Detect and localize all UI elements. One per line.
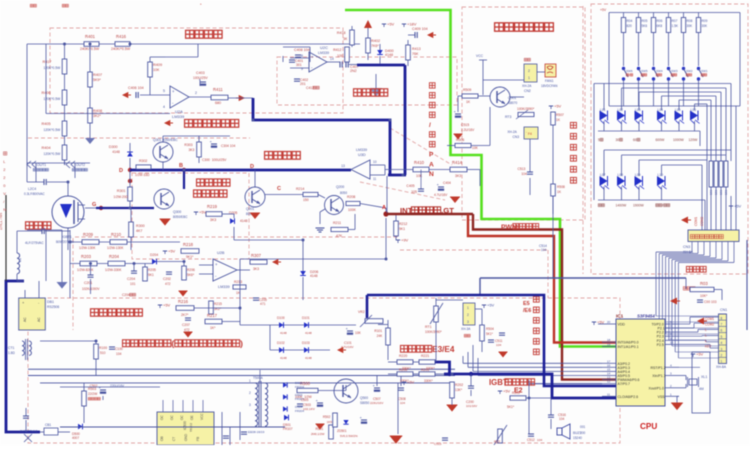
svg-text:C207: C207	[182, 323, 190, 327]
svg-text:1K: 1K	[466, 100, 471, 104]
svg-text:D101: D101	[302, 316, 310, 320]
svg-text:R03: R03	[700, 281, 708, 286]
svg-text:100K/3990*: 100K/3990*	[425, 330, 442, 334]
svg-text:R414: R414	[452, 160, 463, 165]
svg-text:C201: C201	[84, 281, 92, 285]
svg-text:330K*: 330K*	[424, 379, 433, 383]
svg-text:60: 60	[633, 138, 637, 142]
svg-text:+9V: +9V	[401, 238, 409, 243]
svg-text:13K*: 13K*	[455, 388, 463, 392]
svg-text:D300: D300	[109, 145, 118, 149]
svg-text:L01: L01	[600, 108, 606, 112]
svg-text:V: V	[3, 191, 6, 196]
svg-text:L: L	[705, 334, 707, 338]
svg-text:3K: 3K	[343, 37, 348, 41]
svg-text:4148: 4148	[112, 150, 120, 154]
svg-text:Q301 8050/EBC: Q301 8050/EBC	[153, 138, 178, 142]
svg-text:CN1: CN1	[720, 308, 727, 312]
svg-text:R219: R219	[207, 204, 218, 209]
svg-text:11: 11	[607, 392, 610, 396]
svg-text:C300 100U/25V: C300 100U/25V	[202, 158, 227, 162]
svg-text:CLO/A8/P2.6: CLO/A8/P2.6	[618, 395, 639, 399]
svg-text:R215: R215	[214, 302, 222, 306]
svg-text:R302: R302	[139, 159, 147, 163]
svg-text:R401: R401	[85, 34, 96, 39]
svg-text:R200: R200	[399, 368, 407, 372]
svg-text:L: L	[705, 328, 707, 332]
svg-text:RST/P1.2: RST/P1.2	[650, 366, 665, 370]
svg-text:XH-8A: XH-8A	[716, 365, 727, 369]
svg-text:100K/3990*: 100K/3990*	[517, 107, 535, 111]
svg-text:8: 8	[301, 54, 303, 58]
svg-text:3K3: 3K3	[253, 267, 259, 271]
svg-text:R203: R203	[81, 254, 92, 259]
svg-text:+5V: +5V	[168, 249, 176, 254]
svg-text:): )	[240, 339, 243, 349]
svg-text:+5V: +5V	[199, 210, 207, 215]
svg-text:3K2*: 3K2*	[93, 114, 101, 118]
svg-text:R417: R417	[42, 60, 51, 64]
svg-text:3: 3	[721, 347, 723, 351]
svg-text:RS2506: RS2506	[47, 305, 59, 309]
svg-text:R409: R409	[153, 63, 162, 67]
svg-text:AC: AC	[37, 317, 41, 322]
svg-text:R410: R410	[414, 160, 425, 165]
svg-text:510: 510	[100, 351, 106, 355]
svg-text:R508: R508	[557, 185, 565, 189]
svg-text:CN3: CN3	[683, 245, 690, 249]
svg-text:R408: R408	[93, 109, 102, 113]
svg-text:LM339: LM339	[356, 148, 367, 152]
svg-text:R507: R507	[556, 113, 564, 117]
svg-text:R402: R402	[371, 39, 380, 43]
svg-text:100U/25V: 100U/25V	[193, 76, 208, 80]
svg-text:+: +	[215, 262, 218, 267]
svg-text:20: 20	[607, 320, 611, 324]
svg-text:OB: OB	[160, 436, 164, 441]
svg-text:D: D	[250, 164, 254, 170]
svg-text:820: 820	[627, 24, 633, 28]
svg-text:A7/P0.7: A7/P0.7	[618, 382, 631, 386]
svg-text:4148: 4148	[385, 53, 393, 57]
svg-text:+5V: +5V	[554, 104, 562, 109]
svg-text:R08: R08	[687, 19, 693, 23]
svg-text:120K*0.5W: 120K*0.5W	[44, 128, 62, 132]
svg-text:VR2: VR2	[358, 310, 365, 314]
svg-text:L2C4: L2C4	[28, 187, 36, 191]
svg-text:CB1: CB1	[45, 423, 51, 427]
svg-text:5K6: 5K6	[642, 24, 648, 28]
svg-text:104: 104	[521, 172, 527, 176]
svg-text:Q201: Q201	[246, 207, 254, 211]
svg-text:R506: R506	[456, 138, 464, 142]
svg-text:10K*: 10K*	[700, 294, 708, 298]
svg-text:100: 100	[337, 54, 343, 58]
svg-text:104: 104	[541, 248, 547, 252]
svg-text:R407: R407	[93, 73, 102, 77]
svg-text:XH-3A: XH-3A	[461, 327, 471, 331]
svg-text:2M0,1/2W: 2M0,1/2W	[311, 432, 325, 436]
svg-text:R220: R220	[399, 354, 407, 358]
svg-text:5: 5	[598, 138, 600, 142]
svg-text:R404: R404	[41, 146, 50, 150]
svg-text:R405: R405	[41, 122, 50, 126]
svg-text:R210: R210	[111, 232, 122, 237]
svg-text:18VDCFAN: 18VDCFAN	[541, 84, 558, 88]
svg-text:-: -	[526, 130, 527, 134]
svg-text:472: 472	[165, 282, 171, 286]
svg-text:2: 2	[467, 313, 469, 317]
svg-text:R208: R208	[347, 195, 355, 199]
svg-text:/E6: /E6	[523, 308, 531, 314]
svg-text:R300: R300	[136, 224, 145, 228]
svg-text:2UF/275VAC: 2UF/275VAC	[20, 429, 38, 433]
svg-text:R216: R216	[178, 299, 189, 304]
svg-text:5K1*: 5K1*	[486, 332, 494, 336]
svg-text:R218: R218	[183, 242, 194, 247]
svg-text:1/2W-130K: 1/2W-130K	[79, 246, 96, 250]
svg-text:R209: R209	[83, 232, 94, 237]
svg-text:R301: R301	[117, 189, 126, 193]
svg-text:R502: R502	[323, 415, 331, 419]
svg-text:R201: R201	[421, 368, 429, 372]
svg-text:1K*: 1K*	[210, 326, 216, 330]
svg-text:10K: 10K	[153, 68, 160, 72]
svg-text:IC500: IC500	[183, 421, 187, 430]
svg-text:C406 104: C406 104	[128, 86, 144, 90]
svg-text:6K8: 6K8	[657, 24, 663, 28]
svg-text:3K3: 3K3	[455, 174, 461, 178]
svg-text:R418: R418	[337, 31, 346, 35]
svg-text:150: 150	[303, 198, 309, 202]
svg-text:1.8Ω: 1.8Ω	[8, 351, 15, 355]
svg-text:104: 104	[116, 352, 122, 356]
svg-text:5K9*: 5K9*	[93, 78, 101, 82]
svg-text:L02: L02	[618, 108, 624, 112]
svg-text:220U/16V: 220U/16V	[370, 401, 383, 405]
svg-text:10: 10	[670, 340, 674, 344]
svg-text:7K6*: 7K6*	[371, 44, 379, 48]
svg-text:D: D	[119, 168, 123, 174]
svg-text:9K1: 9K1	[148, 273, 154, 277]
svg-text:R213: R213	[234, 280, 242, 284]
svg-text:D204: D204	[150, 253, 158, 257]
svg-text:24K: 24K	[377, 334, 384, 338]
svg-text:7: 7	[721, 323, 723, 327]
svg-text:8050/EBC: 8050/EBC	[173, 215, 188, 219]
svg-text:P2.5: P2.5	[657, 343, 664, 347]
svg-text:104: 104	[559, 417, 565, 421]
svg-text:9K1: 9K1	[399, 227, 405, 231]
svg-text:1: 1	[721, 360, 723, 364]
svg-text:C304 104: C304 104	[221, 144, 235, 148]
svg-text:R411: R411	[213, 87, 223, 92]
svg-text:IC1: IC1	[616, 314, 624, 319]
svg-text:4LF/275VAC: 4LF/275VAC	[25, 241, 44, 245]
svg-text:+5V: +5V	[503, 389, 511, 394]
svg-text:472: 472	[184, 328, 190, 332]
svg-text:4148: 4148	[310, 274, 318, 278]
svg-text:N: N	[429, 171, 434, 178]
svg-text:LM339: LM339	[218, 285, 230, 289]
svg-text:D100: D100	[277, 316, 285, 320]
svg-text:R221: R221	[421, 354, 429, 358]
svg-text:100K: 100K	[348, 208, 357, 212]
svg-text:120W: 120W	[689, 138, 699, 142]
svg-text:201: 201	[300, 82, 306, 86]
svg-text:D103: D103	[302, 341, 310, 345]
svg-text:T500A: T500A	[253, 376, 264, 380]
svg-text:COM2: COM2	[705, 323, 714, 327]
svg-text:FB: FB	[196, 437, 200, 441]
svg-text:SW2: SW2	[686, 69, 693, 73]
svg-text:C202: C202	[163, 277, 171, 281]
svg-text:E5: E5	[523, 301, 530, 307]
svg-text:ZD501: ZD501	[337, 429, 347, 433]
svg-text:8: 8	[721, 316, 723, 320]
svg-text:104: 104	[400, 401, 405, 405]
svg-text:GND: GND	[184, 433, 188, 441]
svg-text:SW3: SW3	[671, 69, 678, 73]
svg-text:10: 10	[373, 160, 377, 164]
svg-text:R07: R07	[672, 19, 678, 23]
svg-text:C409 104: C409 104	[412, 27, 428, 31]
svg-text:1/2W-330K: 1/2W-330K	[105, 268, 122, 272]
svg-text:R413: R413	[412, 47, 421, 51]
svg-text:Xin/P1.1: Xin/P1.1	[652, 374, 665, 378]
svg-text:30K: 30K	[687, 24, 694, 28]
svg-text:C: C	[277, 186, 281, 192]
svg-text:CPU: CPU	[640, 422, 657, 431]
svg-text:A: A	[382, 205, 386, 211]
svg-text:IGBT1: IGBT1	[62, 235, 72, 239]
svg-text:4K7: 4K7	[136, 229, 142, 233]
svg-text:VDD: VDD	[618, 323, 626, 327]
svg-text:C204: C204	[127, 277, 135, 281]
svg-text:L: L	[705, 339, 707, 343]
svg-text:R101: R101	[374, 329, 382, 333]
svg-text:104: 104	[537, 438, 542, 442]
svg-text:FAN1: FAN1	[545, 79, 554, 83]
svg-text:/: /	[429, 122, 431, 129]
svg-text:19: 19	[607, 343, 611, 347]
svg-text:C408 104: C408 104	[294, 48, 310, 52]
svg-text:C515: C515	[461, 123, 469, 127]
svg-text:0.3LF/800VAC: 0.3LF/800VAC	[24, 192, 45, 196]
svg-text:FR204: FR204	[295, 409, 304, 413]
svg-text:COM2: COM2	[700, 217, 704, 226]
svg-text:9K1*: 9K1*	[186, 255, 194, 259]
svg-text:1.5K: 1.5K	[672, 24, 679, 28]
svg-text:2.2U/16V: 2.2U/16V	[461, 128, 475, 132]
svg-text:5: 5	[721, 335, 723, 339]
svg-text:120K*0.5W: 120K*0.5W	[44, 152, 62, 156]
svg-text:R303: R303	[184, 143, 192, 147]
svg-text:OUT1: OUT1	[37, 163, 46, 167]
svg-text:CN3: CN3	[512, 135, 519, 139]
svg-text:13: 13	[341, 164, 345, 168]
svg-text:CT1: CT1	[8, 346, 15, 350]
svg-text:C513: C513	[517, 167, 525, 171]
svg-text:12: 12	[607, 380, 611, 384]
svg-text:1: 1	[249, 379, 251, 383]
svg-text:R211: R211	[333, 221, 341, 225]
svg-text:COM1: COM1	[705, 317, 714, 321]
svg-text:1/2W-130K: 1/2W-130K	[107, 246, 124, 250]
svg-text:OE: OE	[190, 415, 194, 420]
svg-text:200: 200	[580, 431, 586, 435]
svg-text:1/2W-33Ω: 1/2W-33Ω	[135, 173, 150, 177]
svg-text:C405: C405	[406, 184, 414, 188]
svg-text:001: 001	[580, 425, 586, 429]
svg-text:VSS: VSS	[658, 395, 666, 399]
svg-text:47K: 47K	[336, 234, 343, 238]
svg-text:102K/1000V: 102K/1000V	[82, 287, 100, 291]
svg-text:S3F9454: S3F9454	[637, 314, 655, 319]
svg-text:R05: R05	[642, 19, 648, 23]
svg-text:L06: L06	[691, 108, 697, 112]
svg-text:CN2: CN2	[524, 89, 531, 93]
svg-text:3K3: 3K3	[210, 218, 216, 222]
svg-text:4: 4	[163, 105, 165, 109]
svg-text:C100: C100	[115, 347, 123, 351]
svg-text:L04: L04	[658, 108, 664, 112]
svg-text:R205: R205	[148, 268, 156, 272]
svg-text:C403: C403	[196, 71, 205, 75]
svg-text:4148: 4148	[305, 331, 312, 335]
svg-text:14: 14	[330, 57, 334, 61]
svg-text:Q500: Q500	[360, 396, 368, 400]
svg-text:2: 2	[249, 391, 251, 395]
svg-text:R509: R509	[463, 88, 471, 92]
svg-text:4: 4	[721, 341, 723, 345]
svg-text:R217: R217	[207, 313, 218, 318]
svg-text:+: +	[311, 54, 314, 59]
svg-text:R307: R307	[251, 253, 262, 258]
svg-text:U2C: U2C	[320, 45, 328, 50]
svg-text:C00 103: C00 103	[704, 300, 717, 304]
svg-text:/: /	[662, 204, 663, 208]
svg-text:INT1/A1/P0.1: INT1/A1/P0.1	[618, 345, 639, 349]
svg-text:F4: F4	[528, 132, 532, 136]
svg-text:5K1*: 5K1*	[507, 405, 515, 409]
svg-text:4148: 4148	[280, 356, 287, 360]
svg-text:R505: R505	[512, 391, 520, 395]
svg-text:+5V: +5V	[163, 303, 171, 308]
svg-text:D102: D102	[277, 341, 285, 345]
svg-text:CT: CT	[172, 437, 176, 441]
svg-text:R202: R202	[455, 383, 463, 387]
svg-text:+5V: +5V	[600, 8, 607, 12]
svg-text:3: 3	[249, 403, 251, 407]
svg-text:1: 1	[467, 306, 469, 310]
svg-text:LM339: LM339	[172, 114, 185, 119]
svg-text:L07: L07	[600, 173, 606, 177]
svg-text:3: 3	[467, 320, 469, 324]
svg-text:1K5: 1K5	[327, 420, 333, 424]
svg-text:G: G	[92, 202, 96, 208]
svg-text:22/2W: 22/2W	[88, 392, 97, 396]
svg-text:R09: R09	[702, 19, 708, 23]
svg-text:2K7*: 2K7*	[181, 313, 189, 317]
svg-text:C512: C512	[527, 438, 535, 442]
svg-text:L09: L09	[635, 173, 641, 177]
svg-text:104: 104	[496, 343, 501, 347]
svg-text:600W: 600W	[656, 138, 666, 142]
svg-text:(: (	[171, 339, 174, 349]
svg-text:C505: C505	[301, 398, 309, 402]
svg-text:A: A	[429, 161, 434, 168]
svg-text:FR204: FR204	[295, 385, 304, 389]
svg-text:10K: 10K	[416, 174, 423, 178]
svg-text:R100: R100	[99, 346, 107, 350]
svg-text:VCC: VCC	[476, 54, 484, 58]
svg-text:L1: L1	[18, 258, 22, 262]
svg-text:N: N	[3, 207, 6, 212]
svg-text:11: 11	[373, 177, 377, 181]
svg-text:SW4: SW4	[656, 69, 663, 73]
svg-text:R204: R204	[109, 254, 120, 259]
svg-text:101: 101	[130, 282, 136, 286]
svg-text:102,1KV: 102,1KV	[303, 407, 316, 411]
svg-text:1400W: 1400W	[616, 204, 628, 208]
svg-text:101/16V: 101/16V	[466, 404, 477, 408]
svg-text:Xout/P1.0: Xout/P1.0	[649, 386, 664, 390]
svg-text:R04: R04	[627, 19, 633, 23]
svg-text:RT3: RT3	[505, 115, 511, 119]
svg-text:E3/E4: E3/E4	[432, 345, 455, 354]
svg-text:XH-2A: XH-2A	[522, 84, 532, 88]
svg-text:+5V: +5V	[487, 303, 495, 308]
svg-text:680: 680	[215, 101, 221, 105]
svg-text:R214: R214	[296, 187, 304, 191]
svg-text:30K: 30K	[702, 24, 709, 28]
svg-text:/: /	[629, 73, 630, 77]
svg-text:4148: 4148	[280, 331, 287, 335]
svg-text:R412: R412	[333, 48, 341, 52]
svg-text:C404: C404	[443, 181, 451, 185]
svg-text:XH-2A: XH-2A	[507, 130, 517, 134]
svg-text:10K: 10K	[355, 331, 362, 335]
svg-text:U2B: U2B	[217, 251, 225, 255]
svg-text:FR107: FR107	[283, 427, 293, 431]
svg-text:RT1: RT1	[425, 325, 432, 329]
svg-text:L08: L08	[618, 173, 624, 177]
svg-text:U3D: U3D	[358, 153, 366, 157]
svg-text:471: 471	[260, 302, 266, 306]
svg-text:R06: R06	[657, 19, 663, 23]
svg-text:4007: 4007	[72, 436, 79, 440]
svg-text:2: 2	[195, 91, 197, 95]
svg-text:SW5: SW5	[641, 69, 648, 73]
svg-text:5K6*: 5K6*	[187, 273, 195, 277]
svg-text:4.7U/16V: 4.7U/16V	[434, 193, 448, 197]
svg-text:OC: OC	[170, 415, 174, 420]
svg-text:S8050: S8050	[360, 401, 369, 405]
svg-text:EE08-16/19: EE08-16/19	[248, 430, 265, 434]
svg-text:10K: 10K	[472, 146, 479, 150]
svg-text:1000W: 1000W	[673, 138, 685, 142]
svg-text:2: 2	[528, 69, 530, 73]
svg-text:Q300: Q300	[173, 210, 181, 214]
svg-text:5V6,0.5W/2%: 5V6,0.5W/2%	[340, 434, 358, 438]
svg-text:1/2W-20Ω: 1/2W-20Ω	[114, 195, 129, 199]
svg-text:R212: R212	[399, 222, 407, 226]
svg-text:15%,1.7mm: 15%,1.7mm	[0, 213, 3, 230]
svg-text:1: 1	[528, 76, 530, 80]
svg-text:5: 5	[163, 89, 165, 93]
svg-text:+5V: +5V	[734, 204, 742, 209]
